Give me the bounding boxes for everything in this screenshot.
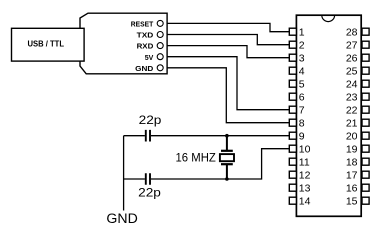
svg-text:22p: 22p bbox=[138, 186, 161, 200]
svg-text:24: 24 bbox=[346, 79, 358, 91]
pin 9 pad bbox=[289, 132, 296, 139]
adapter pin circle TXD bbox=[157, 32, 163, 38]
svg-text:3: 3 bbox=[299, 53, 305, 65]
svg-text:17: 17 bbox=[346, 170, 358, 182]
pin 27 pad bbox=[362, 41, 369, 48]
svg-text:16: 16 bbox=[346, 183, 358, 195]
adapter pin circle RXD bbox=[157, 43, 163, 49]
pin 22 pad bbox=[362, 106, 369, 113]
wire 5V to pin7 bbox=[167, 57, 289, 110]
pin 10 pad bbox=[289, 145, 296, 152]
pin 17 pad bbox=[362, 171, 369, 178]
svg-text:12: 12 bbox=[299, 170, 311, 182]
svg-text:18: 18 bbox=[346, 157, 358, 169]
svg-text:GND: GND bbox=[106, 211, 137, 227]
capacitor C2 22p (bottom) bbox=[146, 173, 150, 185]
wire RXD to pin3 bbox=[167, 46, 289, 58]
svg-text:GND: GND bbox=[135, 64, 154, 73]
pin 3 pad bbox=[289, 54, 296, 61]
capacitor C1 22p (top) bbox=[146, 130, 150, 142]
wire TXD to pin2 bbox=[167, 35, 289, 45]
svg-text:RESET: RESET bbox=[131, 20, 154, 29]
svg-text:TXD: TXD bbox=[137, 31, 154, 40]
wire GND to pin8 bbox=[167, 68, 289, 123]
pin 18 pad bbox=[362, 158, 369, 165]
svg-text:5V: 5V bbox=[145, 53, 154, 62]
IC left pin numbers bbox=[299, 27, 311, 208]
svg-text:27: 27 bbox=[346, 40, 358, 52]
adapter pin circle 5V bbox=[157, 54, 163, 60]
svg-text:9: 9 bbox=[299, 131, 305, 143]
pin 19 pad bbox=[362, 145, 369, 152]
svg-text:USB / TTL: USB / TTL bbox=[28, 40, 65, 49]
svg-text:26: 26 bbox=[346, 53, 358, 65]
pin 25 pad bbox=[362, 67, 369, 74]
svg-text:15: 15 bbox=[346, 196, 358, 208]
svg-text:28: 28 bbox=[346, 27, 358, 39]
svg-text:RXD: RXD bbox=[137, 42, 154, 51]
pin 28 pad bbox=[362, 28, 369, 35]
svg-text:19: 19 bbox=[346, 144, 358, 156]
svg-text:11: 11 bbox=[299, 157, 310, 169]
pin 5 pad bbox=[289, 80, 296, 87]
adapter pin circle RESET bbox=[157, 20, 163, 26]
svg-text:22p: 22p bbox=[139, 113, 162, 127]
svg-text:22: 22 bbox=[346, 105, 358, 117]
pin 26 pad bbox=[362, 54, 369, 61]
pin 11 pad bbox=[289, 158, 296, 165]
junction node at crystal top bbox=[225, 134, 229, 138]
svg-text:6: 6 bbox=[299, 92, 305, 104]
USB / TTL plug box bbox=[12, 28, 85, 61]
adapter pin circle GND bbox=[157, 65, 163, 71]
pin 24 pad bbox=[362, 80, 369, 87]
svg-text:20: 20 bbox=[346, 131, 358, 143]
USB/TTL adapter board outline bbox=[80, 13, 167, 74]
junction node at crystal bottom bbox=[225, 177, 229, 181]
IC U1 DIP-28 body bbox=[296, 15, 361, 216]
wire GND vertical to GND label bbox=[123, 136, 125, 211]
pin 6 pad bbox=[289, 93, 296, 100]
pin 21 pad bbox=[362, 119, 369, 126]
svg-text:10: 10 bbox=[299, 144, 311, 156]
pin 4 pad bbox=[289, 67, 296, 74]
wire XTAL2 net: pin10 line bbox=[124, 149, 290, 179]
pin 1 pad bbox=[289, 28, 296, 35]
svg-text:23: 23 bbox=[346, 92, 358, 104]
pin 16 pad bbox=[362, 184, 369, 191]
IC left pin squares 1-14 bbox=[289, 28, 296, 204]
pin 13 pad bbox=[289, 184, 296, 191]
wire RESET to pin1 bbox=[167, 23, 289, 31]
crystal X1 16 MHZ bbox=[220, 136, 234, 179]
svg-text:16 MHZ: 16 MHZ bbox=[176, 150, 217, 164]
pin 23 pad bbox=[362, 93, 369, 100]
pin 8 pad bbox=[289, 119, 296, 126]
IC right pin numbers bbox=[346, 27, 358, 208]
pin 15 pad bbox=[362, 197, 369, 204]
IC notch bbox=[322, 15, 335, 21]
svg-text:14: 14 bbox=[299, 196, 311, 208]
svg-text:2: 2 bbox=[299, 40, 305, 52]
IC right pin squares 28-15 bbox=[362, 28, 369, 204]
pin 20 pad bbox=[362, 132, 369, 139]
svg-text:8: 8 bbox=[299, 118, 305, 130]
svg-text:21: 21 bbox=[346, 118, 358, 130]
svg-text:4: 4 bbox=[299, 66, 305, 78]
svg-text:1: 1 bbox=[299, 27, 305, 39]
svg-text:5: 5 bbox=[299, 79, 305, 91]
pin 2 pad bbox=[289, 41, 296, 48]
pin 12 pad bbox=[289, 171, 296, 178]
pin 7 pad bbox=[289, 106, 296, 113]
pin 14 pad bbox=[289, 197, 296, 204]
wire XTAL1 net: pin9 line bbox=[124, 135, 290, 137]
svg-text:25: 25 bbox=[346, 66, 358, 78]
svg-text:7: 7 bbox=[299, 105, 305, 117]
svg-text:13: 13 bbox=[299, 183, 311, 195]
